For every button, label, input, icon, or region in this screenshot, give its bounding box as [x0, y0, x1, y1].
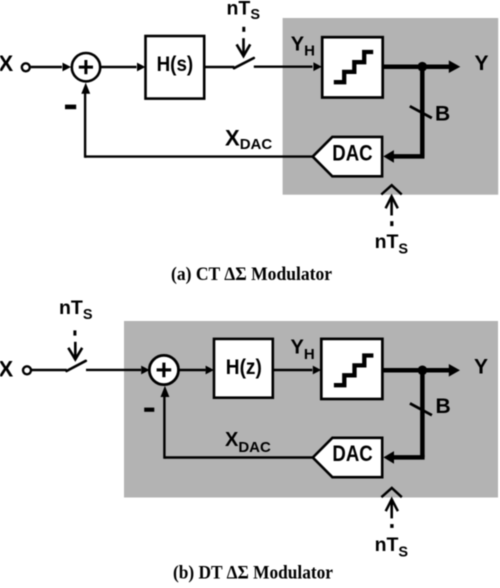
svg-text:(a) CT ΔΣ Modulator: (a) CT ΔΣ Modulator — [171, 265, 332, 285]
svg-text:DAC: DAC — [332, 441, 373, 466]
svg-text:XDAC: XDAC — [225, 125, 272, 153]
wire quantizer to Y (b) — [382, 368, 449, 373]
shaded DT region (a) — [283, 18, 499, 195]
wire node down to DAC (a) — [420, 67, 425, 157]
wire H(s) to switch (a) — [204, 66, 234, 68]
svg-text:H(s): H(s) — [157, 53, 194, 76]
svg-text:(b) DT ΔΣ Modulator: (b) DT ΔΣ Modulator — [173, 564, 333, 584]
minus sign (b) — [144, 408, 154, 412]
wire quantizer to Y (a) — [383, 64, 450, 69]
filter H(z) box (b) — [214, 339, 273, 398]
input terminal (b) — [23, 366, 31, 374]
wire into DAC (a) — [393, 154, 424, 159]
sampling clock dashed arrow (b) — [73, 330, 76, 335]
svg-text:Y: Y — [475, 52, 489, 75]
svg-text:nTS: nTS — [59, 297, 93, 323]
summer S1 (a) — [72, 53, 100, 81]
wire into DAC (b) — [393, 455, 424, 460]
svg-text:nTS: nTS — [227, 0, 261, 23]
node junction dot (b) — [418, 366, 428, 376]
svg-text:B: B — [436, 395, 451, 418]
sampling switch (a) — [234, 58, 254, 68]
svg-text:B: B — [435, 103, 450, 126]
svg-text:H(z): H(z) — [226, 356, 262, 379]
wire XDAC feedback (a) — [85, 155, 313, 157]
DAC clock dashed arrow (a) — [381, 185, 401, 194]
bus width slash (b) — [410, 403, 432, 415]
node junction dot (a) — [418, 62, 428, 72]
wire summer to H(s) (a) — [100, 66, 136, 68]
wire X to summer (a) — [31, 66, 62, 68]
svg-text:X: X — [0, 357, 14, 382]
wire node down to DAC (b) — [420, 370, 425, 457]
wire X to switch (b) — [32, 369, 67, 371]
wire H(z) to quantizer (b) — [273, 369, 313, 371]
DAC clock dashed arrow (b) — [381, 488, 401, 497]
shaded DT region (b) — [124, 321, 498, 498]
minus sign (a) — [65, 105, 76, 110]
sampling clock dashed arrow (a) — [242, 27, 245, 32]
wire switch to quantizer (a) — [254, 65, 313, 67]
summer S2 (b) — [149, 355, 178, 384]
filter H(s) box (a) — [146, 36, 205, 99]
svg-text:nTS: nTS — [375, 534, 409, 560]
sampling switch (b) — [67, 361, 86, 371]
quantizer Q (a) — [322, 37, 383, 97]
svg-text:DAC: DAC — [332, 140, 373, 165]
wire switch to summer (b) — [86, 369, 141, 371]
DAC block (b) — [313, 438, 382, 477]
wire summer to H(z) (b) — [179, 369, 206, 371]
bus width slash (a) — [410, 106, 432, 118]
DAC block (a) — [313, 137, 382, 176]
wire XDAC feedback (b) — [164, 456, 312, 458]
input terminal (a) — [22, 63, 30, 71]
svg-text:nTS: nTS — [375, 231, 409, 257]
quantizer Q (b) — [321, 339, 382, 399]
svg-text:Y: Y — [474, 355, 488, 378]
svg-text:X: X — [0, 51, 14, 76]
